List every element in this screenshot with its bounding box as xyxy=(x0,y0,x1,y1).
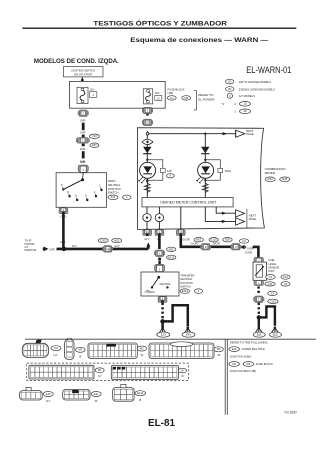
svg-text:2 :: 2 : xyxy=(234,102,237,106)
svg-text:R: R xyxy=(67,191,69,194)
svg-text:REFER TO THE FOLLOWING.: REFER TO THE FOLLOWING. xyxy=(230,340,269,344)
svg-text:1D: 1D xyxy=(170,96,173,100)
svg-text:YEL8880: YEL8880 xyxy=(284,411,297,415)
svg-text:TRANSFER: TRANSFER xyxy=(180,273,194,277)
svg-text:*1: *1 xyxy=(221,102,224,106)
svg-text:M52: M52 xyxy=(196,238,202,242)
svg-text:M2: M2 xyxy=(78,348,82,352)
svg-text:B11: B11 xyxy=(257,333,262,337)
svg-text:N: N xyxy=(75,195,77,198)
svg-text:M52: M52 xyxy=(114,238,120,242)
svg-text:M6: M6 xyxy=(217,347,221,351)
svg-text:NEUTRAL: NEUTRAL xyxy=(108,183,121,187)
svg-text:W: W xyxy=(140,353,143,357)
svg-text:1D: 1D xyxy=(243,102,246,106)
svg-text:B: B xyxy=(139,398,141,402)
svg-text:B: B xyxy=(79,355,81,359)
svg-text:NEUTRAL: NEUTRAL xyxy=(160,283,172,286)
svg-text:E413: E413 xyxy=(168,255,175,259)
svg-text:E103: E103 xyxy=(211,238,218,242)
svg-text:G/R: G/R xyxy=(60,240,66,244)
svg-text:G/OR: G/OR xyxy=(182,238,189,242)
svg-text:POSITION: POSITION xyxy=(108,187,121,191)
svg-text:14: 14 xyxy=(106,247,110,251)
svg-text:FUEL: FUEL xyxy=(268,258,275,262)
svg-text:2D: 2D xyxy=(228,87,231,91)
svg-text:E412: E412 xyxy=(182,289,189,293)
svg-text:F22: F22 xyxy=(111,195,116,199)
svg-text:EL-81: EL-81 xyxy=(148,418,175,429)
svg-text:FUEL: FUEL xyxy=(225,169,232,173)
svg-text:-SUPER MULTIPLE: -SUPER MULTIPLE xyxy=(241,347,265,351)
svg-text:E60: E60 xyxy=(92,143,97,147)
svg-text:GY: GY xyxy=(54,353,58,357)
svg-text:G/R: G/R xyxy=(49,247,54,251)
svg-text:M3: M3 xyxy=(247,362,251,366)
svg-text:G/Y: G/Y xyxy=(144,237,149,241)
svg-text:A/T MODELS: A/T MODELS xyxy=(239,94,255,98)
svg-text:JUNCTION BOX (J/B): JUNCTION BOX (J/B) xyxy=(230,369,257,373)
svg-text:10A: 10A xyxy=(155,92,160,95)
svg-text:2D: 2D xyxy=(243,109,246,113)
svg-text:-FUSE BLOCK: -FUSE BLOCK xyxy=(255,362,273,366)
svg-text:E41: E41 xyxy=(186,333,191,337)
svg-text:M34: M34 xyxy=(268,177,274,181)
svg-text:MONITOR: MONITOR xyxy=(25,249,37,252)
svg-text:C3: C3 xyxy=(271,291,275,295)
svg-text:G/Y: G/Y xyxy=(72,244,77,248)
svg-text:E41: E41 xyxy=(94,392,99,396)
svg-text:IGNITION SWITCH: IGNITION SWITCH xyxy=(72,68,95,72)
svg-text:C5: C5 xyxy=(284,282,288,286)
svg-text:1D: 1D xyxy=(228,80,231,84)
svg-text:C10: C10 xyxy=(283,275,288,279)
svg-text:C2: C2 xyxy=(242,239,246,243)
svg-text:G/OR: G/OR xyxy=(191,242,198,246)
svg-text:PAGE.: PAGE. xyxy=(246,132,254,136)
svg-text:UNIT: UNIT xyxy=(268,269,274,273)
svg-text:SWITCH: SWITCH xyxy=(180,285,190,289)
svg-text:E15: E15 xyxy=(46,392,51,396)
svg-text:(J/B): (J/B) xyxy=(168,91,174,95)
svg-text:SENSOR: SENSOR xyxy=(268,266,279,270)
svg-text:Z350001-5 ENGINE MODELS: Z350001-5 ENGINE MODELS xyxy=(239,87,275,91)
svg-text:NEXT: NEXT xyxy=(249,213,257,217)
svg-text:100771 ENGINE MODELS: 100771 ENGINE MODELS xyxy=(239,80,271,84)
svg-text:31: 31 xyxy=(146,121,150,125)
svg-text:UNIFIED METER CONTROL UNIT: UNIFIED METER CONTROL UNIT xyxy=(160,201,217,205)
svg-text:MODELOS DE COND. IZQDA.: MODELOS DE COND. IZQDA. xyxy=(34,58,119,65)
svg-text:C4: C4 xyxy=(269,275,273,279)
svg-text:W: W xyxy=(95,399,98,403)
svg-text:E412: E412 xyxy=(137,391,144,395)
svg-text:G/OR: G/OR xyxy=(245,251,252,255)
svg-text:EL-WARN-01: EL-WARN-01 xyxy=(246,64,291,75)
svg-text:G/R: G/R xyxy=(80,131,86,135)
svg-text:NEUTRAL: NEUTRAL xyxy=(180,277,193,281)
svg-text:ATP: ATP xyxy=(167,169,172,173)
svg-text:G/R: G/R xyxy=(80,118,86,122)
svg-text:M3: M3 xyxy=(140,346,144,350)
svg-text:GY: GY xyxy=(46,399,50,403)
svg-text:C11: C11 xyxy=(268,282,273,286)
svg-text:EL-POWER.: EL-POWER. xyxy=(198,97,215,101)
svg-text:C10: C10 xyxy=(92,134,97,138)
svg-text:G/R: G/R xyxy=(80,160,86,164)
svg-text:POSITION: POSITION xyxy=(180,281,193,285)
svg-text:FUSE BLOCK: FUSE BLOCK xyxy=(168,88,185,92)
svg-text:PAGE.: PAGE. xyxy=(249,217,257,221)
svg-text:M4: M4 xyxy=(232,362,236,366)
svg-text:1 :: 1 : xyxy=(234,109,237,113)
svg-text:A: A xyxy=(126,195,128,199)
svg-text:C302: C302 xyxy=(100,238,107,242)
svg-text:M35: M35 xyxy=(282,177,288,181)
svg-text:G/OR: G/OR xyxy=(213,242,220,246)
svg-text:TESTIGOS ÓPTICOS Y ZUMBADOR: TESTIGOS ÓPTICOS Y ZUMBADOR xyxy=(93,19,227,28)
svg-text:PARK/: PARK/ xyxy=(108,179,116,183)
svg-text:C201: C201 xyxy=(270,299,277,303)
svg-text:M52: M52 xyxy=(169,247,175,251)
svg-text:D: D xyxy=(85,195,87,198)
svg-text:A: A xyxy=(170,174,172,178)
svg-text:OTHERS: OTHERS xyxy=(145,291,155,294)
svg-text:E13: E13 xyxy=(161,333,166,337)
svg-text:SWITCH: SWITCH xyxy=(108,191,119,195)
svg-text:E58: E58 xyxy=(225,238,230,242)
svg-text:GY: GY xyxy=(98,375,102,378)
svg-text:M1: M1 xyxy=(54,346,58,350)
svg-text:M1: M1 xyxy=(98,368,102,372)
svg-text:E15: E15 xyxy=(232,347,237,351)
svg-text:G/Y: G/Y xyxy=(115,244,120,248)
svg-text:ON OR START: ON OR START xyxy=(74,72,92,76)
svg-text:10A: 10A xyxy=(90,89,95,92)
svg-text:W: W xyxy=(217,353,220,357)
svg-text:METER: METER xyxy=(265,171,276,175)
svg-text:G/R: G/R xyxy=(80,147,86,151)
svg-text:LEVEL: LEVEL xyxy=(268,262,277,266)
svg-text:M6: M6 xyxy=(184,96,188,100)
svg-text:Esquema de conexiones — WARN —: Esquema de conexiones — WARN — xyxy=(130,37,268,44)
svg-text:B22: B22 xyxy=(273,333,278,337)
svg-text:JUNCTION (SMJ): JUNCTION (SMJ) xyxy=(230,354,252,358)
